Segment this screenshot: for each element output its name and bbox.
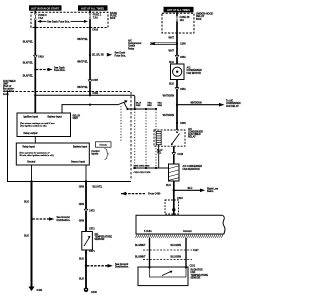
label BLU/GRN upper <box>171 245 182 247</box>
svg-text:(Part of: (Part of <box>3 85 11 88</box>
junction sensor pin <box>85 180 87 182</box>
svg-text:GRN: GRN <box>157 105 162 107</box>
wire from C460 (dashed) <box>121 193 146 195</box>
connector line C127 (dashed) <box>143 249 192 251</box>
label C551 lower <box>180 88 186 91</box>
label DASH FUSE BOX <box>110 12 117 20</box>
wire control bus C <box>133 167 169 169</box>
label C457 <box>92 79 98 82</box>
arrowhead right low beam <box>200 189 205 193</box>
wire BLU/GRN sensor gnd <box>185 238 187 267</box>
junction L1 left <box>34 94 36 96</box>
label OIL TEMPERATURE SENSOR <box>95 234 113 241</box>
ECM internal switch box (dashed) <box>165 200 179 214</box>
svg-text:To A/C: To A/C <box>226 100 233 103</box>
connector C472 <box>84 209 87 212</box>
arrow to fuse1 <box>71 20 89 23</box>
label C571 upper <box>89 227 95 230</box>
svg-text:after ignition switch is off.): after ignition switch is off.) <box>20 125 47 128</box>
svg-text:HOT IN RUN OR START: HOT IN RUN OR START <box>31 8 59 11</box>
wire fuse1 to box bottom <box>89 20 91 28</box>
power bar HOT AT ALL TIMES (dash) <box>78 5 108 10</box>
oil temperature sensor box <box>82 232 93 251</box>
arrowhead ground ref right <box>108 264 113 268</box>
svg-text:Fuse Box.: Fuse Box. <box>54 69 66 72</box>
svg-text:SENSOR: SENSOR <box>191 277 201 279</box>
label BLK (below motor) <box>169 82 174 85</box>
wire L2 to battery input <box>62 105 118 113</box>
wire ground ref arm right <box>87 265 108 267</box>
node bus B drop1 <box>134 108 136 110</box>
label C571 lower <box>89 250 95 253</box>
svg-text:2E, 2R, 3B: 2E, 2R, 3B <box>92 54 104 57</box>
svg-text:BLK: BLK <box>24 235 29 238</box>
label C551 upper <box>180 56 186 59</box>
svg-text:BLK/YEL: BLK/YEL <box>23 61 34 64</box>
label WHT/GRN (lower) <box>163 114 175 117</box>
wire ref arm to condenser fan relay <box>177 104 219 106</box>
connector C551 upper <box>175 55 178 58</box>
arrowhead condenser fan relay ref <box>219 103 224 107</box>
label C316 C318 C319 <box>134 172 152 174</box>
wire relay coil to control bus <box>158 145 160 168</box>
label C316 node <box>177 153 183 156</box>
wire fuse9 feed <box>34 11 36 14</box>
label Control inputs <box>91 150 100 156</box>
label Battery input (delay) <box>48 116 62 119</box>
junction ground ref right <box>85 265 87 267</box>
svg-text:BLK: BLK <box>79 277 84 280</box>
svg-text:BLK: BLK <box>24 201 29 204</box>
wire arm right high-low <box>174 189 200 191</box>
wire fuse28 to box bottom <box>176 22 178 33</box>
dash fuse box (dashed outline) <box>31 12 108 27</box>
svg-text:Beam: Beam <box>207 191 213 193</box>
wire fuse9 to box bottom <box>34 20 36 28</box>
svg-text:A/C: A/C <box>128 40 132 43</box>
svg-text:GRN: GRN <box>79 219 85 222</box>
svg-text:BLU: BLU <box>166 184 171 187</box>
svg-text:WHT/YEL: WHT/YEL <box>77 38 88 41</box>
svg-text:FAN MOTOR: FAN MOTOR <box>187 72 202 75</box>
label BLU/WHT lower <box>135 256 146 258</box>
label BLK/YEL (lower) <box>23 74 34 77</box>
svg-text:See Dash Fuse Box.: See Dash Fuse Box. <box>47 20 70 23</box>
svg-text:Relay: Relay <box>128 48 135 50</box>
wire WHT under-hood <box>176 33 178 64</box>
svg-text:C457: C457 <box>92 79 98 82</box>
label BLK/YEL (upper) <box>23 40 34 43</box>
svg-text:WHT/GRN: WHT/GRN <box>163 114 175 117</box>
arrowhead timer contact <box>124 100 127 103</box>
A/C condenser fan motor M1 <box>171 64 185 80</box>
label delay note <box>20 122 55 128</box>
power bar HOT AT ALL TIMES (under-hood) <box>164 7 194 13</box>
label FAN TIMER UNIT note <box>3 80 16 96</box>
brace control inputs <box>105 149 109 160</box>
svg-text:BLU/WHT: BLU/WHT <box>135 245 146 247</box>
fuse F28 <box>176 15 178 21</box>
svg-text:YEL: YEL <box>157 152 162 154</box>
label A/C Compressor Clutch Relay <box>128 40 142 51</box>
fan timer delay unit box <box>17 113 71 137</box>
svg-text:Distribution.: Distribution. <box>115 266 129 269</box>
label BLU (arm) <box>188 188 193 190</box>
label UNDER-HOOD RELAY BOX <box>196 12 213 20</box>
svg-text:C206: C206 <box>180 43 186 46</box>
svg-text:C306: C306 <box>180 122 186 125</box>
junction high-low <box>173 189 175 191</box>
label From C460 <box>148 193 161 196</box>
wire to ECM switch <box>173 190 175 215</box>
label BLK (upper) <box>24 201 29 204</box>
node sensor terminal left <box>148 266 150 268</box>
svg-text:RELAY: RELAY <box>188 136 196 139</box>
wire BLU below resistor <box>173 181 175 190</box>
node bus C 3 <box>155 167 157 169</box>
svg-text:Battery input: Battery input <box>48 116 62 119</box>
svg-text:FAN RELAY: FAN RELAY <box>226 105 239 108</box>
fan timer unit box (dashed outline) <box>8 92 132 182</box>
svg-text:BLU: BLU <box>188 188 193 190</box>
wire bus L1 battery <box>35 95 135 109</box>
A/C condenser fan relay box (dashed) <box>154 130 185 146</box>
label BLU/GRN lower <box>171 256 182 258</box>
label To A/C CONDENSER FAN RELAY <box>226 100 241 108</box>
label BLU (below resistor) <box>166 184 171 187</box>
node on box bottom right <box>89 26 91 28</box>
label See Dash Fuse Box (left ref) <box>54 66 66 72</box>
svg-text:RED: RED <box>147 105 152 107</box>
wire timer contact blade <box>118 101 126 104</box>
svg-text:Ground: Ground <box>183 230 192 233</box>
wire ground pin <box>31 165 33 182</box>
svg-text:C571: C571 <box>89 227 95 230</box>
svg-text:WHT/YEL: WHT/YEL <box>77 60 88 63</box>
oil temp sensor symbol <box>84 236 90 246</box>
svg-text:90 min. after ignition switch: 90 min. after ignition switch is off.) <box>20 154 54 157</box>
node bus C 2 <box>145 167 147 169</box>
svg-text:TEMPERATURE: TEMPERATURE <box>95 236 113 239</box>
svg-text:FAN TIMER: FAN TIMER <box>3 80 16 83</box>
ECM connector hatch <box>135 235 223 238</box>
svg-text:Sensor input: Sensor input <box>71 160 85 163</box>
label BLU/YEL (top right) <box>93 186 103 188</box>
svg-text:RED: RED <box>136 105 141 107</box>
wire WHT/YEL column <box>89 28 91 96</box>
node C571 lower <box>85 252 87 254</box>
connector C551 lower <box>175 88 178 91</box>
label Ground (box2) <box>27 161 36 163</box>
svg-text:inputs: inputs <box>91 153 99 156</box>
wire BLU/WHT sensor 5v <box>149 238 151 267</box>
svg-text:GRN ORN GRN: GRN ORN GRN <box>134 166 150 168</box>
label C151 <box>190 265 196 267</box>
wire ref arm left <box>36 69 48 71</box>
arrow to fuse9 <box>37 20 46 23</box>
label See Dash Fuse Box (right ref) <box>115 52 127 58</box>
svg-text:WHT: WHT <box>169 50 175 53</box>
svg-text:BLU/WHT: BLU/WHT <box>135 256 146 258</box>
relay contact blade <box>171 131 180 145</box>
label WHT/YEL (lower) <box>77 60 88 63</box>
label C318 below junction <box>177 197 183 200</box>
svg-text:HOT AT ALL TIMES: HOT AT ALL TIMES <box>167 9 190 12</box>
label relay note <box>20 151 54 157</box>
node on box bottom left <box>34 26 36 28</box>
svg-text:UNIT: UNIT <box>73 118 79 120</box>
label WHT/YEL (upper) <box>77 38 88 41</box>
wire ground ref arm <box>33 218 50 220</box>
label GRN ORN GRN <box>134 166 150 168</box>
label C306 <box>180 122 186 125</box>
svg-text:C551: C551 <box>180 88 186 91</box>
relay coil K1 <box>156 132 161 145</box>
svg-text:Distribution.: Distribution. <box>57 219 71 222</box>
arrowhead ref right <box>107 53 112 57</box>
label BLU/RED <box>136 102 141 106</box>
leads box <box>96 142 112 147</box>
svg-text:C151: C151 <box>190 265 196 267</box>
svg-text:G401: G401 <box>37 289 44 292</box>
wire BLK/YEL left column <box>34 28 36 114</box>
label BLK (sensor upper) <box>79 257 84 260</box>
junction L2 <box>89 104 91 106</box>
label A/C CONDENSER FAN MOTOR <box>187 66 203 74</box>
ground G402 <box>84 288 89 293</box>
svg-text:A/C: A/C <box>188 128 192 131</box>
label Right Low Beam <box>207 188 218 194</box>
svg-text:C127: C127 <box>193 250 199 252</box>
svg-text:Control: Control <box>91 150 100 153</box>
svg-text:WHT: WHT <box>169 37 175 40</box>
svg-text:BLU/YEL: BLU/YEL <box>93 186 103 188</box>
label WHT (below arm) <box>169 50 175 53</box>
svg-text:BOX: BOX <box>196 18 202 21</box>
ECM box <box>136 215 225 234</box>
label BLK (lower) <box>24 235 29 238</box>
label G402 <box>91 291 98 294</box>
svg-text:Relay input: Relay input <box>23 146 36 149</box>
connector line C151 (dashed) <box>143 259 192 261</box>
svg-text:7.5A: 7.5A <box>38 17 43 20</box>
label C127 <box>193 250 199 252</box>
junction C206 <box>176 43 178 45</box>
svg-text:SENSOR: SENSOR <box>95 239 105 241</box>
svg-text:FAN RESISTOR: FAN RESISTOR <box>183 168 200 171</box>
svg-text:5 leads: 5 leads <box>99 145 107 147</box>
svg-text:BLU/GRN: BLU/GRN <box>171 256 182 258</box>
connector C457 <box>88 80 91 83</box>
node bus B drop3 <box>155 108 157 110</box>
label C461 <box>92 92 98 95</box>
svg-text:Battery input: Battery input <box>73 146 87 149</box>
junction dash-fuse-ref right <box>89 54 91 56</box>
wire delay to relay box2 <box>34 137 36 144</box>
label YEL/GRN <box>157 102 162 106</box>
ground G401 <box>28 287 34 292</box>
label G401 <box>37 289 44 292</box>
label Ground (ECM) <box>183 230 192 233</box>
wire BLU/YEL relay output <box>173 146 175 164</box>
svg-text:BLU/GRN: BLU/GRN <box>171 245 182 247</box>
label See Ground Distribution (right) <box>115 264 129 269</box>
node bus C 1 <box>134 167 136 169</box>
arrowhead from C460 <box>121 192 126 196</box>
svg-text:C316: C316 <box>177 153 183 156</box>
arrowhead ground ref <box>49 217 54 221</box>
connector C316 node <box>172 153 175 156</box>
node C571 upper <box>85 227 87 229</box>
svg-text:C472: C472 <box>89 210 95 213</box>
A/C condenser fan resistor R1 <box>169 164 180 181</box>
svg-text:A/C CONDENSER: A/C CONDENSER <box>183 165 203 168</box>
label BLK (sensor lower) <box>79 277 84 280</box>
label A/C CONDENSER FAN RESISTOR <box>183 165 203 171</box>
wire fuse28 feed <box>176 12 178 15</box>
label WHT/YEL (bottom) <box>77 86 88 89</box>
connector C410 <box>34 55 37 58</box>
label WHT (above clutch arm) <box>169 37 175 40</box>
label GRN (top) <box>79 185 85 188</box>
arrowhead compressor clutch relay <box>150 42 155 45</box>
svg-text:BLK: BLK <box>79 257 84 260</box>
label BLU/YEL (relay out) <box>157 150 163 155</box>
svg-text:G402: G402 <box>91 291 98 294</box>
fuse F1 <box>89 13 91 20</box>
svg-text:BOX: BOX <box>110 17 116 20</box>
svg-text:7.5A: 7.5A <box>93 16 98 19</box>
node ECM switch <box>172 208 175 211</box>
svg-text:WHT/GRN: WHT/GRN <box>163 95 175 98</box>
wire control drop 4 (dashed) <box>120 106 122 142</box>
fan timer relay unit box <box>16 143 89 165</box>
junction fan relay ref <box>176 104 178 106</box>
wire BLK below motor <box>176 80 178 131</box>
label RADIATOR FAN TEMPERATURE SENSOR <box>191 269 209 280</box>
under-hood relay box (dashed outline) <box>162 13 194 33</box>
svg-text:C416: C416 <box>92 28 98 31</box>
label DELAY UNIT <box>73 114 81 120</box>
svg-text:10A: 10A <box>180 19 185 22</box>
label WHT/GRN (on arm) <box>191 102 202 104</box>
fuse F9 <box>34 13 36 20</box>
wire control bus B <box>128 108 157 110</box>
wire GRN sensor column upper <box>85 182 87 232</box>
svg-text:C461: C461 <box>92 92 98 95</box>
junction L1 right <box>89 94 91 96</box>
label GRN (upper) <box>79 203 85 206</box>
label Sensor input <box>71 160 85 163</box>
label C410 <box>38 56 44 59</box>
svg-text:GRN: GRN <box>79 185 85 188</box>
arrowhead ref left <box>48 68 53 72</box>
wire sensor pin <box>85 165 87 182</box>
svg-text:BLK: BLK <box>169 82 174 85</box>
svg-text:Fuse Box.: Fuse Box. <box>115 54 127 57</box>
label C472 <box>89 210 95 213</box>
node bus B left <box>126 108 128 110</box>
label Battery input (relay) <box>73 146 87 149</box>
junction dash-fuse-ref left <box>34 68 36 70</box>
sensor symbol (thermistor) <box>162 271 173 276</box>
label YEL/RED <box>147 102 152 106</box>
svg-text:Ground: Ground <box>27 161 36 163</box>
label Ignition input <box>24 116 39 119</box>
label See Ground Distribution (left) <box>57 217 71 222</box>
wire BLK sensor ground <box>85 250 87 289</box>
svg-text:From C460: From C460 <box>148 193 161 196</box>
label C206 <box>180 43 186 46</box>
svg-text:C316 C318 C319: C316 C318 C319 <box>134 172 152 174</box>
label See Dash Fuse Box (inside) <box>47 20 70 23</box>
junction ground ref left <box>30 218 32 220</box>
label C416 <box>92 28 98 31</box>
label A/C CONDENSER FAN RELAY <box>188 128 203 139</box>
wire fuse1 feed <box>89 10 91 13</box>
label FUSE 1 7.5A <box>93 14 102 20</box>
label Delay output <box>24 132 38 135</box>
svg-text:C551: C551 <box>180 56 186 59</box>
label 5 Volts <box>144 230 152 233</box>
wire BLK fan timer ground <box>31 182 33 288</box>
wire arm to compressor clutch relay <box>150 43 177 45</box>
svg-text:C571: C571 <box>89 250 95 253</box>
svg-text:HOT AT ALL TIMES: HOT AT ALL TIMES <box>81 8 104 11</box>
svg-text:FAN: FAN <box>191 271 196 274</box>
svg-text:the under-: the under- <box>3 88 15 91</box>
label BLU (motor feed) <box>169 61 174 64</box>
power bar HOT IN RUN OR START <box>29 5 62 10</box>
svg-text:Delay output: Delay output <box>24 132 38 135</box>
label 2E 2R 3B <box>92 54 104 57</box>
svg-text:C410: C410 <box>38 56 44 59</box>
label FUSE 9 7.5A <box>38 14 47 20</box>
wire control drop 2 <box>145 109 147 168</box>
svg-text:WHT/YEL: WHT/YEL <box>77 86 88 89</box>
svg-text:GRN: GRN <box>79 203 85 206</box>
svg-text:Clutch: Clutch <box>128 45 136 48</box>
svg-text:FAN TIMER: FAN TIMER <box>188 133 201 136</box>
svg-text:WHT/GRN: WHT/GRN <box>191 102 202 104</box>
label Relay input <box>23 146 36 149</box>
svg-text:BLK/YEL: BLK/YEL <box>23 74 34 77</box>
label BLK/YEL (mid) <box>23 61 34 64</box>
wire control drop 3 <box>155 109 157 168</box>
svg-text:5 Volts: 5 Volts <box>144 230 152 233</box>
label 5 leads <box>99 145 107 147</box>
svg-text:Ignition input: Ignition input <box>24 116 39 119</box>
svg-text:BLK/YEL: BLK/YEL <box>23 40 34 43</box>
label WHT/GRN (upper) <box>163 95 175 98</box>
node sensor terminal right <box>185 266 187 268</box>
wire control drop 1 <box>134 109 136 168</box>
node bus B drop2 <box>145 108 147 110</box>
label FUSE 28 10A <box>180 16 190 22</box>
junction ground pin <box>30 180 32 182</box>
svg-text:TEMPERATURE: TEMPERATURE <box>191 274 209 277</box>
svg-text:RADIATOR: RADIATOR <box>191 269 203 272</box>
junction C306 <box>176 122 178 124</box>
label GRN (lower) <box>79 219 85 222</box>
svg-text:Right Low: Right Low <box>207 188 218 191</box>
radiator fan temperature sensor box <box>138 267 188 286</box>
label BLU/WHT upper <box>135 245 146 247</box>
wire blade pivot to bus <box>124 103 128 109</box>
